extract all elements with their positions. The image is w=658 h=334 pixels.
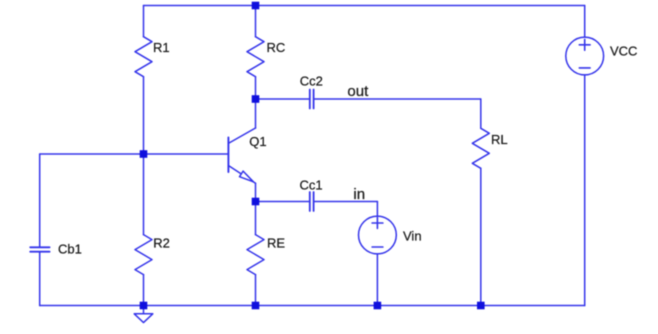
node collector / out junction xyxy=(252,95,260,103)
svg-text:Cc1: Cc1 xyxy=(300,177,323,192)
capacitor Cb1 xyxy=(30,247,49,251)
node base / R1-R2 junction xyxy=(140,150,148,158)
resistor RE xyxy=(247,235,264,275)
resistor RL xyxy=(472,128,489,168)
svg-text:RL: RL xyxy=(491,132,508,147)
svg-text:Cb1: Cb1 xyxy=(58,242,82,257)
wire out right segment xyxy=(315,98,481,100)
node bottom rail RL junction xyxy=(477,302,485,310)
svg-text:Cc2: Cc2 xyxy=(300,74,323,89)
wire bottom rail xyxy=(40,305,585,307)
capacitor Cc1 xyxy=(310,192,314,211)
svg-text:out: out xyxy=(347,83,369,100)
voltage source VCC xyxy=(566,37,604,75)
wire Vin top lead xyxy=(376,202,378,217)
wire VCC bottom lead xyxy=(584,75,586,306)
wire RL top lead xyxy=(480,99,482,128)
node bottom rail Vin junction xyxy=(374,302,382,310)
wire Cb1 bottom lead xyxy=(39,253,41,306)
wire R2 top lead xyxy=(143,154,145,235)
wire VCC top lead xyxy=(584,6,586,38)
svg-text:VCC: VCC xyxy=(610,44,637,59)
svg-text:RC: RC xyxy=(267,40,286,55)
wire out left segment xyxy=(256,98,309,100)
wire top rail xyxy=(144,5,585,7)
svg-text:in: in xyxy=(353,186,365,203)
wire emitter lead xyxy=(255,183,257,201)
wire R1 bottom lead xyxy=(143,77,145,154)
node top rail / RC junction xyxy=(252,2,260,10)
wire R2 bottom lead xyxy=(143,275,145,306)
wire Cb1 top lead xyxy=(39,154,41,246)
wire RL bottom lead xyxy=(480,168,482,305)
wire R1 top lead xyxy=(143,6,145,37)
wire RE bottom lead xyxy=(255,275,257,306)
svg-text:Q1: Q1 xyxy=(249,134,266,149)
wire in right segment xyxy=(315,201,378,203)
ground xyxy=(134,306,153,323)
node emitter / in junction xyxy=(252,198,260,206)
wire Vin bottom lead xyxy=(376,254,378,306)
wire RC top lead xyxy=(255,6,257,37)
wire base row xyxy=(40,153,228,155)
node bottom rail gnd junction xyxy=(140,302,148,310)
node bottom rail RE junction xyxy=(252,302,260,310)
wire in left segment xyxy=(256,201,309,203)
transistor Q1 xyxy=(228,128,255,183)
voltage source Vin xyxy=(359,216,397,254)
wire RC bottom lead xyxy=(255,77,257,99)
resistor R2 xyxy=(135,235,152,275)
svg-text:RE: RE xyxy=(267,236,285,251)
resistor R1 xyxy=(135,37,152,77)
capacitor Cc2 xyxy=(310,90,314,109)
resistor RC xyxy=(247,37,264,77)
svg-text:R2: R2 xyxy=(153,236,170,251)
wire collector lead xyxy=(255,99,257,128)
svg-text:R1: R1 xyxy=(153,40,170,55)
svg-text:Vin: Vin xyxy=(403,228,422,243)
wire RE top lead xyxy=(255,202,257,235)
